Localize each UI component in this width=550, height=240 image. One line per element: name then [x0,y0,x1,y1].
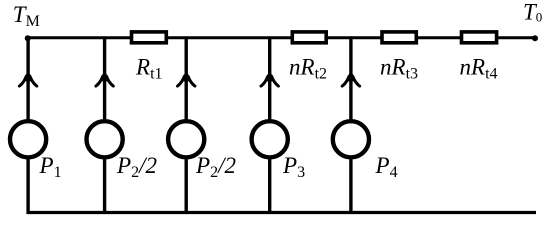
svg-text:T0: T0 [523,0,542,25]
svg-text:nRt2: nRt2 [289,55,327,83]
arrowhead branch 2 [96,71,113,86]
current source P3 circle [252,121,288,157]
svg-text:nRt4: nRt4 [460,55,498,83]
resistor nRt4 [462,32,497,43]
svg-text:P2/2: P2/2 [195,153,236,181]
svg-text:P3: P3 [282,153,305,181]
node TM terminal dot [25,35,31,41]
current source P2/2 a circle [87,121,123,157]
arrowhead branch 1 [19,71,36,86]
arrowhead branch 4 [261,71,278,86]
current source P2/2 b circle [168,121,204,157]
wire branch 1 vertical [26,38,29,214]
svg-text:nRt3: nRt3 [380,55,418,83]
arrowhead branch 3 [178,71,195,86]
current source P1 circle [10,121,46,157]
wire branch 3 vertical [184,36,187,214]
svg-text:Rt1: Rt1 [135,55,163,83]
current source P4 circle [333,121,369,157]
node T0 terminal dot [532,35,538,41]
wire branch 2 vertical [103,36,106,214]
resistor nRt3 [382,32,416,43]
resistor nRt2 [292,32,326,43]
wire top rail [28,36,535,39]
svg-text:TM: TM [13,2,40,30]
svg-text:P4: P4 [375,153,398,181]
svg-text:P2/2: P2/2 [116,153,157,181]
svg-text:P1: P1 [39,153,62,181]
arrowhead branch 5 [342,71,359,86]
wire branch 4 vertical [268,36,271,214]
wire bottom rail [27,211,536,214]
wire branch 5 vertical [349,36,352,214]
resistor Rt1 [132,32,167,43]
